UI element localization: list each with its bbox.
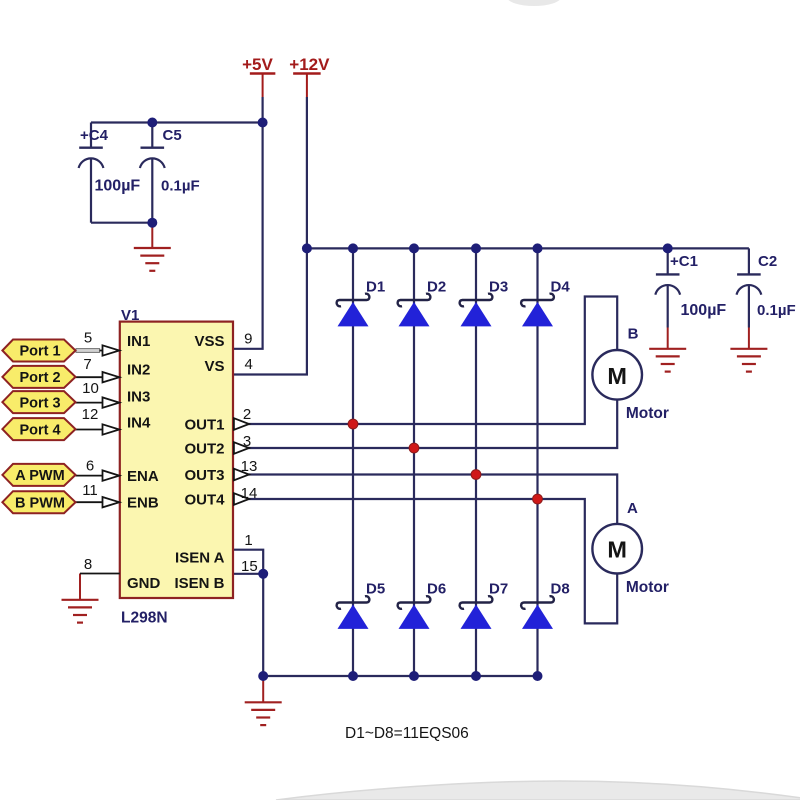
svg-text:OUT1: OUT1	[184, 417, 224, 434]
svg-text:B: B	[628, 325, 639, 342]
svg-text:10: 10	[82, 380, 99, 397]
svg-text:Motor: Motor	[626, 405, 669, 422]
svg-text:ISEN A: ISEN A	[175, 550, 225, 567]
svg-text:D7: D7	[489, 581, 508, 598]
svg-text:M: M	[607, 363, 627, 389]
svg-text:B PWM: B PWM	[15, 495, 65, 511]
svg-text:3: 3	[243, 433, 251, 450]
svg-text:12: 12	[82, 406, 99, 423]
svg-text:Port 2: Port 2	[19, 370, 60, 386]
svg-text:+5V: +5V	[242, 55, 273, 74]
svg-text:IN1: IN1	[127, 333, 150, 350]
svg-text:ENB: ENB	[127, 494, 159, 511]
svg-text:+C4: +C4	[80, 127, 109, 144]
svg-text:2: 2	[243, 406, 251, 423]
svg-text:D3: D3	[489, 279, 508, 296]
svg-text:L298N: L298N	[121, 610, 168, 627]
svg-text:OUT3: OUT3	[184, 467, 224, 484]
svg-text:VSS: VSS	[194, 333, 224, 350]
svg-text:D1: D1	[366, 279, 385, 296]
svg-text:OUT2: OUT2	[184, 441, 224, 458]
svg-text:GND: GND	[127, 575, 161, 592]
svg-text:A: A	[627, 500, 638, 517]
svg-text:0.1µF: 0.1µF	[161, 178, 200, 195]
svg-text:100µF: 100µF	[95, 178, 141, 195]
svg-text:IN4: IN4	[127, 415, 151, 432]
svg-text:Port 4: Port 4	[19, 422, 60, 438]
svg-text:4: 4	[245, 356, 253, 373]
svg-text:D4: D4	[551, 279, 571, 296]
svg-text:1: 1	[244, 532, 252, 549]
svg-text:VS: VS	[204, 358, 224, 375]
svg-text:D1~D8=11EQS06: D1~D8=11EQS06	[345, 725, 469, 742]
svg-text:IN3: IN3	[127, 389, 150, 406]
svg-text:D2: D2	[427, 279, 446, 296]
svg-text:8: 8	[84, 556, 92, 573]
svg-text:13: 13	[241, 458, 258, 475]
svg-text:15: 15	[241, 558, 258, 575]
svg-text:6: 6	[86, 458, 94, 475]
svg-text:D6: D6	[427, 581, 446, 598]
svg-text:11: 11	[82, 482, 98, 499]
svg-text:C2: C2	[758, 253, 777, 270]
svg-text:A PWM: A PWM	[15, 468, 64, 484]
svg-text:5: 5	[84, 330, 92, 347]
svg-text:14: 14	[241, 485, 258, 502]
svg-text:9: 9	[244, 331, 252, 348]
svg-text:D8: D8	[551, 581, 570, 598]
svg-text:Port 1: Port 1	[19, 344, 60, 360]
svg-text:+C1: +C1	[670, 253, 698, 270]
svg-text:V1: V1	[121, 307, 139, 324]
svg-text:OUT4: OUT4	[184, 492, 225, 509]
svg-text:7: 7	[83, 356, 91, 373]
svg-text:Port 3: Port 3	[19, 395, 60, 411]
svg-text:IN2: IN2	[127, 361, 150, 378]
svg-text:ISEN B: ISEN B	[174, 575, 224, 592]
svg-text:0.1µF: 0.1µF	[757, 302, 796, 319]
svg-text:100µF: 100µF	[681, 302, 727, 319]
svg-text:Motor: Motor	[626, 579, 669, 596]
svg-text:ENA: ENA	[127, 468, 159, 485]
svg-text:C5: C5	[163, 127, 182, 144]
svg-text:D5: D5	[366, 581, 385, 598]
svg-text:+12V: +12V	[289, 55, 330, 74]
svg-text:M: M	[607, 537, 627, 563]
